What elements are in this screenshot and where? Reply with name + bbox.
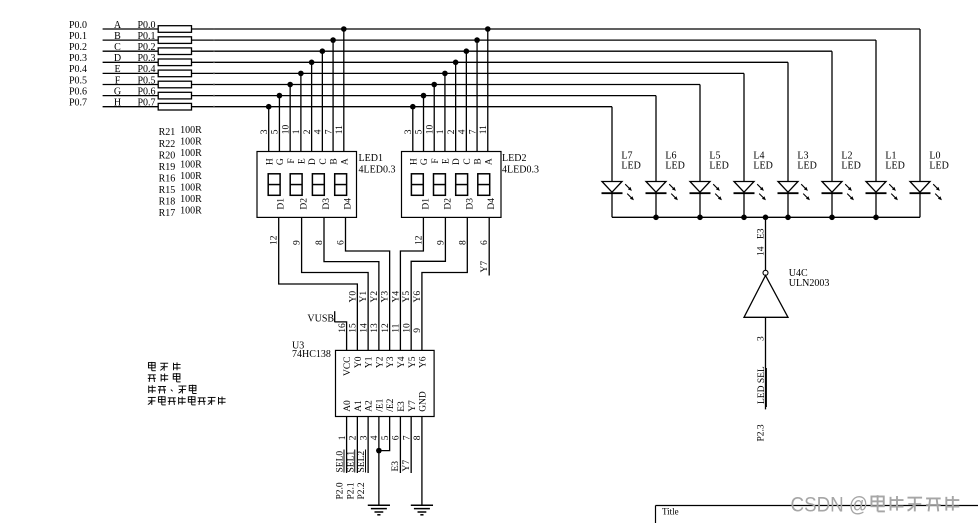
svg-text:D: D <box>452 158 462 165</box>
wire LED L1 cathode to bus <box>875 193 877 217</box>
junction LED bus at L6 <box>653 215 659 221</box>
wire LED L5 cathode to bus <box>699 193 701 217</box>
wire P0.1 drop to L1 <box>875 40 877 181</box>
svg-text:E: E <box>442 158 452 164</box>
U4C inverter bubble <box>763 270 768 275</box>
junction node P0.7 to LED1 pin H <box>266 104 272 110</box>
svg-text:R19: R19 <box>159 162 176 173</box>
svg-text:R17: R17 <box>159 208 176 219</box>
svg-text:4LED0.3: 4LED0.3 <box>359 164 396 175</box>
wire P0.6 drop to LED2 pin G <box>423 96 425 152</box>
svg-text:/E2: /E2 <box>386 398 396 411</box>
junction node P0.3 to LED1 pin D <box>309 60 315 66</box>
LED L0 cathode bar <box>910 192 931 194</box>
resistor body row P0.5 <box>158 81 191 88</box>
junction LED bus at L1 <box>873 215 879 221</box>
svg-text:E: E <box>297 158 307 164</box>
svg-text:F: F <box>431 158 441 163</box>
wire LED2 D3 to U3 Y6 <box>422 217 467 350</box>
junction LED bus at L3 <box>785 215 791 221</box>
resistor body row P0.2 <box>158 48 191 55</box>
wire LED2 D1 to U3 Y4 <box>400 217 423 350</box>
annotation chinese line 4 <box>148 397 156 404</box>
svg-text:D3: D3 <box>465 198 475 210</box>
svg-text:A2: A2 <box>365 400 375 412</box>
LED1 digit cell D3 <box>312 174 324 196</box>
annotation chinese line 2 <box>148 375 156 382</box>
wire joint P0.1 <box>213 39 215 41</box>
wire U3 pin 1 SEL0 <box>346 417 348 474</box>
title block left border line <box>655 506 657 523</box>
junction node P0.2 to LED2 pin C <box>464 48 470 54</box>
wire net P0.6 horizontal run <box>103 95 656 97</box>
annotation chinese line 1 <box>148 362 155 371</box>
svg-text:3: 3 <box>757 336 767 341</box>
LED L5 emission arrows <box>713 184 722 200</box>
svg-text:3: 3 <box>404 129 414 134</box>
wire P0.5 drop to L5 <box>699 85 701 182</box>
LED L1 cathode bar <box>866 192 887 194</box>
svg-text:11: 11 <box>392 323 402 332</box>
wire net P0.7 horizontal run <box>103 106 612 108</box>
resistor body row P0.0 <box>158 26 191 33</box>
wire P0.0 drop to LED2 pin A <box>487 29 489 152</box>
svg-text:11: 11 <box>479 125 489 134</box>
junction node P0.1 to LED2 pin B <box>474 37 480 43</box>
svg-text:R21: R21 <box>159 127 176 138</box>
svg-text:F: F <box>115 75 121 86</box>
junction node P0.3 to LED2 pin D <box>453 60 459 66</box>
wire joint P0.7 <box>213 106 215 108</box>
junction node P0.6 to LED2 pin G <box>421 93 427 99</box>
svg-text:4: 4 <box>314 129 324 134</box>
wire P0.2 drop to LED2 pin C <box>465 51 467 151</box>
svg-text:D2: D2 <box>443 198 453 210</box>
wire U3 pin 4 /E1 to ground <box>378 417 380 506</box>
display LED2 body <box>402 152 502 218</box>
svg-text:100R: 100R <box>180 194 202 205</box>
wire LED1 D1 to U3 Y0 <box>279 217 358 350</box>
svg-text:C: C <box>114 42 121 53</box>
junction LED bus at L2 <box>829 215 835 221</box>
wire P0.1 drop to LED1 pin B <box>332 40 334 151</box>
watermark chinese characters <box>871 495 884 511</box>
svg-text:A: A <box>484 158 494 165</box>
svg-text:100R: 100R <box>180 159 202 170</box>
wire net P0.3 horizontal run <box>103 61 788 63</box>
svg-text:14: 14 <box>757 246 767 256</box>
LED L5 triangle <box>690 182 710 193</box>
wire P0.3 drop to LED2 pin D <box>455 62 457 151</box>
junction node P0.0 to LED2 pin A <box>485 26 491 32</box>
wire LED L4 cathode to bus <box>743 193 745 217</box>
svg-text:R18: R18 <box>159 197 176 208</box>
svg-text:E3: E3 <box>397 401 407 412</box>
svg-text:R15: R15 <box>159 185 176 196</box>
wire U3 pin 3 SEL2 <box>367 417 369 474</box>
wire LED L6 cathode to bus <box>655 193 657 217</box>
junction /E1 /E2 <box>376 448 382 454</box>
svg-text:LED: LED <box>753 160 772 171</box>
svg-text:3: 3 <box>260 129 270 134</box>
svg-text:5: 5 <box>415 129 425 134</box>
wire P0.4 drop to LED1 pin E <box>300 73 302 151</box>
svg-text:9: 9 <box>413 328 423 333</box>
svg-text:P0.5: P0.5 <box>69 75 87 86</box>
svg-text:Y1: Y1 <box>359 291 369 303</box>
svg-text:A1: A1 <box>354 400 364 412</box>
svg-text:LED: LED <box>797 160 816 171</box>
svg-text:P2.1: P2.1 <box>346 482 356 499</box>
LED1 digit cell D2 <box>290 174 302 196</box>
svg-text:Y7: Y7 <box>408 400 418 412</box>
svg-text:100R: 100R <box>180 171 202 182</box>
wire joint P0.2 <box>213 50 215 52</box>
svg-text:Y2: Y2 <box>370 291 380 303</box>
svg-text:Title: Title <box>662 506 679 516</box>
wire net P0.1 horizontal run <box>103 39 876 41</box>
LED L3 emission arrows <box>801 184 810 200</box>
title block top border line <box>656 505 978 507</box>
wire LED L0 cathode to bus <box>919 193 921 217</box>
wire net P0.5 horizontal run <box>103 84 700 86</box>
wire P0.2 drop to L2 <box>831 51 833 181</box>
svg-text:D4: D4 <box>344 198 354 210</box>
svg-text:P0.4: P0.4 <box>138 64 156 75</box>
svg-text:P0.3: P0.3 <box>138 53 156 64</box>
svg-text:15: 15 <box>349 323 359 333</box>
svg-text:B: B <box>330 158 340 164</box>
wire U3 pin 2 SEL1 <box>356 417 358 474</box>
wire U3 pin 8 GND to ground <box>421 417 423 506</box>
svg-text:10: 10 <box>402 323 412 333</box>
svg-text:100R: 100R <box>180 183 202 194</box>
wire joint P0.6 <box>213 95 215 97</box>
LED L1 emission arrows <box>889 184 898 200</box>
svg-text:12: 12 <box>381 323 391 333</box>
junction LED bus at L4 <box>741 215 747 221</box>
svg-text:VUSB: VUSB <box>307 314 334 325</box>
svg-text:74HC138: 74HC138 <box>292 349 331 360</box>
svg-text:D: D <box>308 158 318 165</box>
svg-text:13: 13 <box>370 323 380 333</box>
svg-text:D1: D1 <box>277 198 287 210</box>
LED L5 cathode bar <box>690 192 711 194</box>
LED L7 cathode bar <box>602 192 623 194</box>
wire P0.3 drop to L3 <box>787 62 789 181</box>
wire U4C output to P2.3 <box>765 317 767 409</box>
junction node P0.7 to LED2 pin H <box>410 104 416 110</box>
wire LED2 D4 net Y7 stub <box>488 217 490 275</box>
junction node P0.5 to LED1 pin F <box>287 82 293 88</box>
svg-text:LED: LED <box>841 160 860 171</box>
net label SEL0 underline <box>343 450 345 473</box>
LED2 digit cell D2 <box>434 174 446 196</box>
annotation chinese line 3 <box>149 385 156 393</box>
resistor body row P0.4 <box>158 70 191 77</box>
svg-text:H: H <box>409 158 419 165</box>
display LED1 body <box>257 152 357 218</box>
svg-text:GND: GND <box>419 391 429 412</box>
svg-text:P0.5: P0.5 <box>138 75 156 86</box>
LED L0 triangle <box>910 182 930 193</box>
svg-text:C: C <box>319 158 329 164</box>
wire P0.4 drop to L4 <box>743 73 745 181</box>
svg-text:Y1: Y1 <box>365 356 375 368</box>
wire P0.1 drop to LED2 pin B <box>476 40 478 151</box>
svg-text:100R: 100R <box>180 148 202 159</box>
LED L4 cathode bar <box>734 192 755 194</box>
svg-text:B: B <box>474 158 484 164</box>
svg-text:R20: R20 <box>159 150 176 161</box>
svg-text:Y3: Y3 <box>386 356 396 368</box>
LED2 digit cell D3 <box>456 174 468 196</box>
svg-text:R16: R16 <box>159 173 176 184</box>
LED L4 triangle <box>734 182 754 193</box>
svg-text:P0.6: P0.6 <box>138 86 156 97</box>
svg-text:100R: 100R <box>180 206 202 217</box>
svg-text:10: 10 <box>425 125 435 135</box>
wire LED1 D2 to U3 Y1 <box>302 217 369 350</box>
junction node P0.4 to LED1 pin E <box>298 71 304 77</box>
wire P0.2 drop to LED1 pin C <box>321 51 323 151</box>
wire P0.6 drop to LED1 pin G <box>278 96 280 152</box>
svg-text:E3: E3 <box>757 228 767 239</box>
svg-text:100R: 100R <box>180 125 202 136</box>
wire joint P0.4 <box>213 73 215 75</box>
svg-text:P0.2: P0.2 <box>138 42 156 53</box>
ground symbol at /E1 /E2 <box>368 504 390 506</box>
LED L2 emission arrows <box>845 184 854 200</box>
svg-text:/E1: /E1 <box>375 398 385 411</box>
svg-text:P0.4: P0.4 <box>69 64 87 75</box>
LED L3 triangle <box>778 182 798 193</box>
svg-text:ULN2003: ULN2003 <box>789 278 830 289</box>
wire P0.7 drop to LED1 pin H <box>268 107 270 152</box>
svg-text:G: G <box>420 158 430 165</box>
svg-text:Y5: Y5 <box>402 291 412 303</box>
svg-text:7: 7 <box>468 129 478 134</box>
svg-text:LED: LED <box>929 160 948 171</box>
svg-text:Y4: Y4 <box>391 291 401 303</box>
svg-text:E: E <box>114 64 120 75</box>
svg-text:14: 14 <box>359 323 369 333</box>
wire net P0.2 horizontal run <box>103 50 832 52</box>
resistor body row P0.1 <box>158 37 191 44</box>
svg-text:P0.6: P0.6 <box>69 86 87 97</box>
svg-text:CSDN @: CSDN @ <box>791 493 869 516</box>
svg-text:F: F <box>287 158 297 163</box>
wire P0.4 drop to LED2 pin E <box>444 73 446 151</box>
svg-text:LED SEL: LED SEL <box>757 366 767 404</box>
svg-text:11: 11 <box>335 125 345 134</box>
svg-text:2: 2 <box>303 129 313 134</box>
svg-text:D2: D2 <box>300 198 310 210</box>
wire P0.5 drop to LED1 pin F <box>289 85 291 152</box>
wire net P0.0 horizontal run <box>103 28 920 30</box>
LED L6 triangle <box>646 182 666 193</box>
svg-text:B: B <box>114 31 121 42</box>
svg-text:Y4: Y4 <box>397 356 407 368</box>
wire LED2 D2 to U3 Y5 <box>411 217 445 350</box>
svg-text:4: 4 <box>458 129 468 134</box>
svg-text:5: 5 <box>271 129 281 134</box>
junction node P0.2 to LED1 pin C <box>320 48 326 54</box>
resistor body row P0.6 <box>158 92 191 99</box>
svg-text:H: H <box>265 158 275 165</box>
svg-text:LED1: LED1 <box>359 153 383 164</box>
svg-text:A0: A0 <box>343 400 353 412</box>
junction node P0.5 to LED2 pin F <box>431 82 437 88</box>
svg-text:D1: D1 <box>421 198 431 210</box>
resistor body row P0.3 <box>158 59 191 66</box>
svg-text:10: 10 <box>281 125 291 135</box>
LED L7 emission arrows <box>625 184 634 200</box>
svg-text:C: C <box>463 158 473 164</box>
svg-text:P0.1: P0.1 <box>69 31 87 42</box>
svg-text:Y6: Y6 <box>419 356 429 368</box>
LED L7 triangle <box>602 182 622 193</box>
wire P0.7 drop to LED2 pin H <box>412 107 414 152</box>
svg-text:P0.3: P0.3 <box>69 53 87 64</box>
junction node P0.4 to LED2 pin E <box>442 71 448 77</box>
svg-text:H: H <box>114 98 121 109</box>
LED L1 triangle <box>866 182 886 193</box>
LED L0 emission arrows <box>933 184 942 200</box>
svg-text:G: G <box>276 158 286 165</box>
svg-text:D: D <box>114 53 121 64</box>
junction LED bus at L5 <box>697 215 703 221</box>
ground symbol at U3 GND <box>411 504 433 506</box>
svg-text:LED: LED <box>665 160 684 171</box>
svg-text:D4: D4 <box>487 198 497 210</box>
svg-text:1: 1 <box>292 129 302 134</box>
svg-text:Y7: Y7 <box>402 460 412 472</box>
junction LED bus tap to U4C <box>763 215 769 221</box>
wire LED L3 cathode to bus <box>787 193 789 217</box>
junction node P0.1 to LED1 pin B <box>330 37 336 43</box>
LED L6 cathode bar <box>646 192 667 194</box>
svg-text:P2.2: P2.2 <box>357 482 367 499</box>
svg-text:A: A <box>340 158 350 165</box>
svg-text:Y2: Y2 <box>375 356 385 368</box>
svg-text:E3: E3 <box>391 461 401 472</box>
svg-text:LED2: LED2 <box>502 153 526 164</box>
svg-text:VCC: VCC <box>343 357 353 377</box>
svg-text:P0.2: P0.2 <box>69 42 87 53</box>
resistor body row P0.7 <box>158 103 191 110</box>
LED1 digit cell D4 <box>335 174 347 196</box>
svg-text:1: 1 <box>436 129 446 134</box>
wire joint P0.3 <box>213 61 215 63</box>
wire U3 pin 7 net Y7 <box>410 417 412 474</box>
wire LED bus to U4C input <box>765 217 767 270</box>
wire joint P0.5 <box>213 84 215 86</box>
power net VUSB tick bar <box>334 311 336 322</box>
svg-text:Y6: Y6 <box>413 291 423 303</box>
net label SEL1 underline <box>354 450 356 473</box>
svg-text:2: 2 <box>447 129 457 134</box>
svg-text:D3: D3 <box>322 198 332 210</box>
wire LED common bus <box>612 216 920 218</box>
wire net P0.4 horizontal run <box>103 72 744 74</box>
svg-text:P0.1: P0.1 <box>138 31 156 42</box>
wire P0.7 drop to L7 <box>611 107 613 182</box>
wire LED1 D3 to U3 Y2 <box>324 217 379 350</box>
wire LED L2 cathode to bus <box>831 193 833 217</box>
LED L6 emission arrows <box>669 184 678 200</box>
LED L4 emission arrows <box>757 184 766 200</box>
svg-text:LED: LED <box>709 160 728 171</box>
junction node P0.6 to LED1 pin G <box>277 93 283 99</box>
wire U3 pin 6 net E3 <box>399 417 401 474</box>
LED2 digit cell D4 <box>478 174 490 196</box>
LED2 digit cell D1 <box>411 174 423 196</box>
wire P0.0 drop to L0 <box>919 29 921 182</box>
svg-text:P0.0: P0.0 <box>138 20 156 31</box>
net label LED SEL underline <box>765 368 767 407</box>
U4C triangle ULN2003 <box>744 276 788 318</box>
wire P0.0 drop to LED1 pin A <box>343 29 345 152</box>
wire joint P0.0 <box>213 28 215 30</box>
svg-text:Y3: Y3 <box>381 291 391 303</box>
net label SEL2 underline <box>365 450 367 473</box>
svg-text:100R: 100R <box>180 136 202 147</box>
svg-text:LED: LED <box>885 160 904 171</box>
svg-text:Y0: Y0 <box>348 291 358 303</box>
svg-text:A: A <box>114 20 122 31</box>
LED1 digit cell D1 <box>268 174 280 196</box>
svg-text:R22: R22 <box>159 139 176 150</box>
LED L2 triangle <box>822 182 842 193</box>
wire P0.5 drop to LED2 pin F <box>433 85 435 152</box>
wire P0.6 drop to L6 <box>655 96 657 182</box>
wire P0.3 drop to LED1 pin D <box>311 62 313 151</box>
LED L2 cathode bar <box>822 192 843 194</box>
svg-text:Y7: Y7 <box>480 261 490 273</box>
svg-text:P0.0: P0.0 <box>69 20 87 31</box>
wire LED1 D4 to U3 Y3 <box>346 217 390 350</box>
wire U3 pin 5 /E2 to junction <box>379 417 390 451</box>
svg-text:P2.0: P2.0 <box>336 482 346 499</box>
svg-text:Y5: Y5 <box>408 356 418 368</box>
svg-text:Y0: Y0 <box>354 356 364 368</box>
junction node P0.0 to LED1 pin A <box>341 26 347 32</box>
svg-text:P2.3: P2.3 <box>757 424 767 441</box>
svg-text:7: 7 <box>324 129 334 134</box>
wire LED L7 cathode to bus <box>611 193 613 217</box>
wire VUSB to U3 pin 16 <box>335 322 347 351</box>
LED L3 cathode bar <box>778 192 799 194</box>
svg-text:LED: LED <box>621 160 640 171</box>
IC U3 74HC138 body <box>336 350 435 416</box>
svg-text:4LED0.3: 4LED0.3 <box>502 164 539 175</box>
svg-text:P0.7: P0.7 <box>138 98 156 109</box>
svg-text:P0.7: P0.7 <box>69 98 87 109</box>
svg-text:G: G <box>114 86 121 97</box>
